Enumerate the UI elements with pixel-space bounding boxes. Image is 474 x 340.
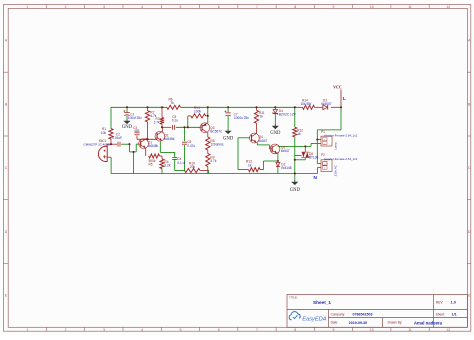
resistor R3 [160,118,164,125]
wire Q1 collector node to Q2 base [137,138,157,140]
wire R10 right lead [200,170,209,172]
transistor Q4 [250,133,260,143]
junction dot MT1 [294,159,296,161]
resistor R1 [109,129,113,140]
junction dot VCC node [340,106,342,108]
junction dot MT2 line [304,145,306,147]
junction dot R3 rail [161,106,163,108]
wire Q4 base line [238,137,250,139]
svg-text:Drawn By:: Drawn By: [388,321,403,325]
wire triac MT1 lead [304,158,306,160]
wire RV1 left drop [187,116,189,127]
svg-text:1: 1 [26,5,28,9]
svg-text:EasyEDA: EasyEDA [302,316,327,322]
wire C1 stem [126,107,128,112]
wire Q5 emitter run [264,160,278,162]
resistor R10 [185,168,201,172]
svg-text:L: L [343,96,346,102]
capacitor C8 [182,142,187,144]
svg-text:GND: GND [122,125,133,130]
svg-text:bc548k: bc548k [148,144,159,148]
svg-text:GMI6027P 2C-40DB: GMI6027P 2C-40DB [84,143,111,147]
svg-text:7k: 7k [170,101,174,105]
wire C8 bottom [184,145,186,170]
wire D3 to VCC node [331,106,341,108]
resistor R8 [206,137,210,150]
wire R14 left lead [300,106,303,108]
svg-text:GND: GND [290,188,301,193]
svg-text:bc547: bc547 [259,139,268,143]
svg-text:10k 5W: 10k 5W [301,102,312,106]
wire R1 bottom to mic node [110,139,112,144]
wire L net drop [340,107,342,130]
wire R10 row left [175,170,185,172]
wire Q5 collector to triac MT2 [278,145,311,147]
svg-text:5: 5 [179,328,181,332]
wire D4 stem [274,107,276,109]
svg-text:1.0: 1.0 [451,301,456,305]
wire Q3 collector to R8 [207,132,209,137]
EasyEDA logo [289,312,327,323]
wire R10 to ground rail [208,171,210,174]
junction dot R11 rail [255,106,257,108]
svg-text:473: 473 [134,129,140,133]
diode D3 [323,105,328,110]
svg-text:Sheet:: Sheet: [436,313,445,317]
junction dot Q5 emitter node [277,160,279,162]
junction dot D4 rail [274,106,276,108]
junction dot Q3 emitter rail [207,106,209,108]
svg-text:IN4007: IN4007 [321,102,332,106]
svg-text:3: 3 [103,328,105,332]
wire R3 stem [161,107,163,117]
svg-text:2.2k: 2.2k [164,164,170,168]
diode D2 [276,161,280,166]
capacitor C2 [118,142,120,147]
wire Q4 emitter to Q5 base [256,143,258,145]
wire R5 right to R4 [160,155,163,157]
wire P1 pin2 stub [311,143,321,145]
wire R13 left lead [238,169,249,171]
svg-text:230v AC: 230v AC [334,164,338,176]
svg-text:Amal nadeera: Amal nadeera [414,320,443,325]
svg-text:11: 11 [408,5,412,9]
connector P2 [321,160,332,172]
transistor Q1 [139,139,149,149]
svg-text:6: 6 [218,328,220,332]
svg-text:12: 12 [446,5,450,9]
wire Q4 base drop [237,138,239,170]
wire R8 R9 junction [207,150,209,154]
resistor R4 [160,159,164,169]
wire node A down [128,144,130,152]
resistor R9 [206,154,210,167]
wire Q2 emitter run [160,151,174,153]
svg-text:1: 1 [26,328,28,332]
wire C4 bottom [174,159,176,170]
wire R11 stem [256,107,258,110]
svg-text:Lamp: Lamp [334,142,338,150]
svg-text:0.1 uf: 0.1 uf [177,161,185,165]
svg-text:20k: 20k [190,165,196,169]
svg-text:5: 5 [179,5,181,9]
capacitor C5 [173,125,175,130]
wire mic bottom pin [108,156,112,158]
svg-text:2019-09-30: 2019-09-30 [349,321,367,325]
wire mic bottom to ground rail [110,157,112,173]
svg-text:Company:: Company: [331,312,346,316]
connector P1 [321,136,332,146]
svg-text:9: 9 [333,328,335,332]
svg-text:10: 10 [370,328,374,332]
junction dot RV1 drop [187,126,189,128]
ground symbol near triac [290,180,301,193]
capacitor C3 [135,133,140,135]
svg-text:Header-Female-2.54_1x2: Header-Female-2.54_1x2 [324,157,357,161]
junction dot C1 rail [126,106,128,108]
wire triac gate [295,155,302,157]
wire to C4 top [174,152,176,157]
junction dot feedback [132,151,134,153]
wire header feed column [316,130,318,164]
svg-text:1k: 1k [260,114,264,118]
svg-text:0.47u: 0.47u [187,144,195,148]
wire P2 pin2 stub [318,167,322,169]
wire RV1 leads [188,115,191,117]
svg-text:BC557C: BC557C [210,130,223,134]
wire L to header column [317,129,341,131]
svg-text:100k: 100k [194,110,201,114]
junction dot C5 node [161,126,163,128]
wire P2 pin2 to N rail [317,168,319,174]
wire triac MT2 lead [304,146,306,152]
wire Q5 collector up [277,145,279,148]
wire R12 column [294,107,296,127]
svg-text:R5: R5 [149,162,153,166]
triac Q6 [301,152,309,157]
svg-text:Date:: Date: [331,321,339,325]
wire P1 pin1 stub [317,139,321,141]
wire into Q1 base [136,143,141,145]
svg-text:12: 12 [446,328,450,332]
svg-text:2: 2 [65,328,67,332]
svg-text:0.01uF: 0.01uF [112,136,122,140]
capacitor C7 [225,111,231,117]
junction dot R2 rail [146,106,148,108]
resistor R5 [149,154,160,158]
wire R13 right lead [260,169,264,171]
wire R14 to D3 [315,106,323,108]
svg-text:BZX2C 12V: BZX2C 12V [279,112,297,116]
wire Q5 emitter drop [277,152,279,161]
svg-text:8: 8 [294,5,296,9]
junction dot RV1 right [207,115,209,117]
wire bottom ground rail [111,173,317,175]
wire R13 up [263,161,265,170]
wire left rail drop to R1 [110,107,112,128]
transistor Q3 [200,123,210,133]
title block frame [287,295,467,328]
svg-text:10: 10 [370,5,374,9]
wire C2 to node A [121,143,129,145]
svg-text:3: 3 [103,5,105,9]
potentiometer RV1 [191,114,206,118]
wire R9 to ground rail [207,167,209,174]
resistor R2 [145,111,149,123]
svg-text:6: 6 [218,5,220,9]
wire mic top pin to C2 [107,143,117,145]
wire base jog up [135,144,137,152]
svg-text:Header-Female-2.54_1x2: Header-Female-2.54_1x2 [324,134,357,138]
svg-text:GND: GND [223,137,234,142]
VCC power symbol [333,85,342,108]
svg-text:N: N [313,175,317,181]
junction dot N ground cross [294,172,296,174]
svg-text:8: 8 [294,328,296,332]
wire C7 stem [227,107,229,112]
junction dot R12 rail [294,106,296,108]
svg-text:1/1: 1/1 [452,313,457,317]
svg-text:GND: GND [270,131,281,136]
wire R2 stem [147,107,149,110]
svg-text:VCC: VCC [333,85,342,90]
wire base jog horizontal [129,151,136,153]
svg-text:bc548k: bc548k [164,137,175,141]
resistor R13 [249,168,261,172]
junction dot C7 rail [227,106,229,108]
wire feedback drop to ground rail [133,152,135,174]
node A dot at R1 [110,143,112,145]
svg-text:1k: 1k [248,163,252,167]
wire R4 node to C4 join [161,156,163,159]
resistor R11 [254,110,258,123]
wire D2 bottom to rail [277,167,279,174]
svg-text:10k: 10k [101,131,107,135]
wire Q1 collector lead [145,138,147,139]
zener diode D4 [273,110,278,115]
capacitor C1 [123,110,129,116]
svg-text:100uf 25v: 100uf 25v [128,116,142,120]
wire Q2 collector to C5 [162,126,171,128]
svg-text:120ohms: 120ohms [210,143,224,147]
svg-text:1k: 1k [297,132,301,136]
wire Q1 emitter to R5 [145,148,147,156]
resistor R12 [293,127,297,137]
svg-text:IN4148: IN4148 [281,166,292,170]
ground symbol near C1 [122,119,133,130]
svg-text:4: 4 [141,5,143,9]
wire top supply rail [111,106,167,108]
svg-text:Sheet_1: Sheet_1 [313,300,331,305]
svg-text:1000u 25v: 1000u 25v [234,116,249,120]
capacitor C4 [172,157,177,159]
resistor R14 [303,105,315,109]
transistor Q5 [270,144,280,154]
wire P2 pin1 stub [317,163,321,165]
wire C3 stem [136,130,138,132]
svg-text:2: 2 [65,5,67,9]
junction dot collector node [146,138,148,140]
svg-text:0.1u: 0.1u [172,119,178,123]
svg-text:TITLE:: TITLE: [289,295,298,299]
node A junction dot [128,143,130,145]
wire Q2 collector lead [161,127,163,132]
svg-text:REV:: REV: [436,300,443,304]
svg-text:4.7k: 4.7k [210,159,216,163]
resistor R6 [167,105,181,109]
svg-text:9: 9 [333,5,335,9]
svg-text:0786541503: 0786541503 [353,313,373,317]
junction dot C8 top [183,126,185,128]
wire P1 pin2 drop [310,144,312,147]
svg-text:7: 7 [256,5,258,9]
wire C8 top [184,127,186,141]
svg-text:11: 11 [408,328,412,332]
svg-text:2.7k: 2.7k [154,121,160,125]
wire R4 bottom to rail [161,169,163,174]
transistor Q2 [155,131,165,141]
ground symbol near D4 [270,124,281,136]
svg-text:bc547: bc547 [281,149,290,153]
junction dot P1 pin1 [316,138,318,140]
svg-text:4: 4 [141,328,143,332]
svg-text:BT136: BT136 [309,156,319,160]
microphone MIC1 [98,146,107,161]
wire C5 to RV1 node [176,126,202,128]
ground symbol near C7 [223,129,234,141]
wire Q3 emitter to rail [207,107,209,123]
svg-text:7: 7 [256,328,258,332]
wire Q2 emitter drop [159,141,161,152]
